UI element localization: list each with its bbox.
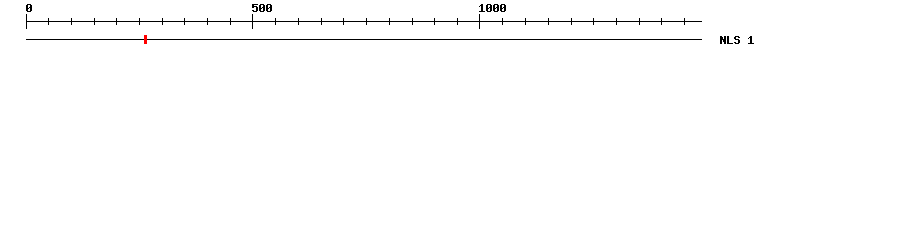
major tick 500 xyxy=(252,14,253,29)
minor tick 800 xyxy=(389,18,390,25)
minor tick 100 xyxy=(71,18,72,25)
minor tick 1050 xyxy=(502,18,503,25)
tick label 0 xyxy=(26,4,32,12)
ruler axis line xyxy=(26,21,702,22)
feature marker NLS 1 (red) xyxy=(144,35,147,44)
minor tick 700 xyxy=(343,18,344,25)
sequence track line xyxy=(26,39,702,40)
minor tick 900 xyxy=(434,18,435,25)
minor tick 1300 xyxy=(616,18,617,25)
minor tick 1250 xyxy=(593,18,594,25)
minor tick 150 xyxy=(94,18,95,25)
minor tick 450 xyxy=(230,18,231,25)
minor tick 250 xyxy=(139,18,140,25)
minor tick 400 xyxy=(207,18,208,25)
minor tick 1200 xyxy=(571,18,572,25)
minor tick 950 xyxy=(457,18,458,25)
tick label 1000 xyxy=(479,4,506,12)
minor tick 650 xyxy=(321,18,322,25)
minor tick 350 xyxy=(184,18,185,25)
minor tick 850 xyxy=(412,18,413,25)
minor tick 50 xyxy=(48,18,49,25)
tick label 500 xyxy=(252,4,272,12)
major tick 0 xyxy=(26,14,27,29)
minor tick 1150 xyxy=(548,18,549,25)
track label NLS 1 xyxy=(720,36,754,44)
minor tick 1100 xyxy=(525,18,526,25)
background xyxy=(0,0,900,58)
minor tick 1400 xyxy=(661,18,662,25)
minor tick 1450 xyxy=(684,18,685,25)
minor tick 550 xyxy=(275,18,276,25)
minor tick 200 xyxy=(116,18,117,25)
minor tick 600 xyxy=(298,18,299,25)
minor tick 750 xyxy=(366,18,367,25)
minor tick 300 xyxy=(162,18,163,25)
major tick 1000 xyxy=(479,14,480,29)
minor tick 1350 xyxy=(639,18,640,25)
